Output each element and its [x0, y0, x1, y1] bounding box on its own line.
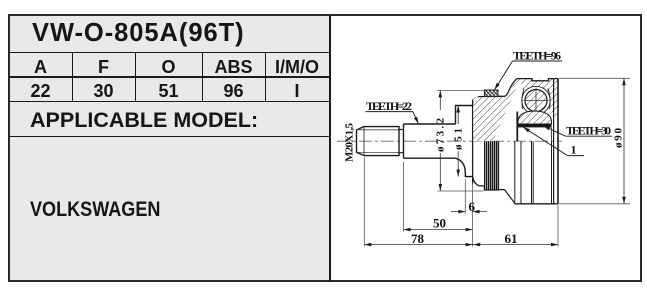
dia73.2 extension top: [438, 89, 485, 91]
dia73.2 extension bottom: [438, 190, 484, 192]
dim extension line 78 left: [363, 157, 365, 247]
dia51 dim line: [457, 106, 459, 177]
ABS ring stripes outline: [484, 141, 505, 190]
svg-text:61: 61: [505, 231, 518, 246]
leader line TEETH=96: [495, 61, 513, 89]
value I: [265, 81, 329, 102]
VOLKSWAGEN: [30, 199, 299, 220]
inner race left edge: [516, 112, 518, 142]
APPLICABLE MODEL:: [30, 110, 350, 130]
svg-text:50: 50: [433, 216, 446, 231]
cage arc right: [548, 89, 550, 110]
value 51: [135, 81, 202, 102]
column line 3: [202, 52, 203, 102]
thread chamfer vertical: [363, 127, 365, 156]
dia90 extension top: [559, 77, 630, 79]
housing bottom chamfer: [505, 190, 515, 204]
snap ring notch white: [532, 79, 548, 81]
column line 1: [72, 52, 73, 102]
arrows dia51: [456, 106, 460, 113]
dim extension line 50 left: [403, 162, 405, 232]
housing top band section hatch: [521, 79, 559, 118]
table row line under APPLICABLE MODEL: [9, 136, 330, 137]
header A: [9, 57, 72, 78]
leader line label 1: [523, 127, 567, 155]
header O: [135, 57, 202, 78]
dim line 78/61: [364, 244, 558, 246]
leader underline TEETH=30: [566, 135, 613, 137]
inner race dome (hatched): [518, 111, 552, 124]
dia73.2 dim line: [439, 90, 441, 191]
housing left wall section hatch: [473, 79, 520, 142]
thread minor diameter lines: [359, 130, 399, 153]
ball crosshair: [524, 88, 549, 115]
svg-text:78: 78: [411, 231, 425, 246]
title VW-O-805A(96T): [32, 21, 332, 46]
leader line TEETH=30: [543, 126, 565, 136]
leader underline TEETH=22: [366, 111, 413, 113]
spline shaft TEETH=22 outline: [404, 124, 456, 158]
leader underline label 1: [568, 155, 585, 157]
arrows dim 78: [364, 243, 371, 247]
arrow leader TEETH=22: [414, 117, 420, 125]
cage arc left: [522, 89, 524, 110]
ABS ring section block (crosshatch): [484, 90, 498, 97]
value 30: [72, 81, 135, 102]
housing bell outer profile top: [498, 79, 558, 97]
arrow leader TEETH=96: [493, 83, 500, 91]
dim extension line 61 right: [557, 205, 559, 247]
divider table/drawing: [329, 15, 331, 282]
thread M20 body outline: [357, 127, 400, 156]
inner race spline bore TEETH=30 dark band: [518, 124, 552, 128]
svg-text:TEETH=22: TEETH=22: [366, 99, 412, 113]
leader line TEETH=22: [413, 112, 419, 124]
table row line under values: [9, 101, 330, 102]
dia90 dim line: [623, 78, 625, 204]
arrows dia90: [622, 78, 626, 85]
shoulder face vertical: [472, 100, 474, 184]
table row line under title: [9, 52, 330, 53]
boot groove top surface: [473, 97, 485, 106]
svg-text:1: 1: [571, 143, 577, 157]
svg-text:TEETH=96: TEETH=96: [513, 48, 561, 62]
ball cavity white gap: [522, 86, 550, 114]
arrows dia73.2: [439, 90, 443, 97]
centerline: [337, 140, 562, 142]
header ABS: [202, 57, 265, 78]
dim line 6 outside pieces: [451, 211, 487, 213]
svg-text:ø73.2: ø73.2: [435, 118, 447, 153]
svg-text:6: 6: [469, 199, 476, 214]
dia90 extension bottom: [559, 203, 630, 205]
housing bottom edge: [515, 203, 559, 205]
arrows dim 50: [404, 228, 411, 232]
dim extension line shoulder x473: [472, 184, 474, 247]
value 22: [9, 81, 72, 102]
arrows dim 6: [458, 210, 465, 214]
housing right face: [557, 79, 559, 204]
svg-text:ø51: ø51: [453, 128, 465, 150]
step dia51 outline: [456, 106, 473, 177]
ball cavity arc: [522, 86, 550, 114]
svg-text:ø90: ø90: [613, 128, 625, 149]
table panel background: [9, 15, 331, 282]
housing lower exterior verticals: [515, 141, 552, 204]
dim extension line 6 left: [464, 180, 466, 214]
header F: [72, 57, 135, 78]
column line 4: [265, 52, 266, 102]
value 96: [202, 81, 265, 102]
svg-text:TEETH=30: TEETH=30: [566, 124, 611, 138]
rim chamfer line: [553, 79, 555, 204]
ball (hatched): [525, 90, 547, 112]
ABS ring front view teeth stripes: [484, 141, 499, 190]
inner race right edge: [551, 127, 553, 141]
boot groove bottom surface: [473, 177, 485, 190]
neck groove: [399, 130, 404, 153]
arrow leader label 1: [522, 125, 530, 132]
arrows dim 61: [473, 243, 480, 247]
table row line under header: [9, 76, 330, 77]
header I/M/O: [265, 57, 329, 78]
dim line 50: [404, 229, 473, 231]
svg-text:M20X1,5: M20X1,5: [344, 123, 356, 163]
arrow leader TEETH=30: [542, 124, 550, 130]
column line 2: [135, 52, 136, 102]
leader underline TEETH=96: [513, 60, 563, 62]
